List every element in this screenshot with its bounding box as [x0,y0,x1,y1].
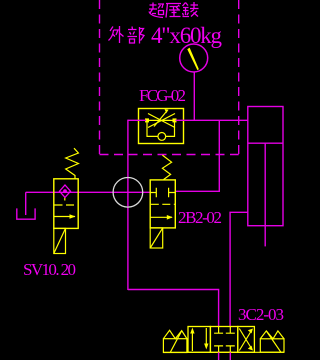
svg-text:SV10. 20: SV10. 20 [23,260,76,279]
外 [109,26,124,43]
wire 3C2 bottom port T2 [229,352,231,360]
wire 3C2 bottom port T1 [218,352,220,360]
svg-text:4"x60kg: 4"x60kg [151,23,223,48]
left square arrows [190,328,208,352]
port dot right [173,118,177,122]
poppet diamond [60,185,71,197]
wire FCG outlet to cylinder [176,119,249,121]
svg-text:3C2-03: 3C2-03 [238,305,284,324]
壓 [166,4,181,18]
body three squares [188,327,254,353]
dashed divider [151,203,175,205]
check valve bypass loop [147,122,175,136]
valve 2B2-02 [150,155,175,248]
spring [66,148,79,179]
pressure gauge [180,44,208,72]
adjustment arrow [154,112,166,127]
wire junction riser [127,120,129,290]
tank symbol [17,208,35,219]
部 [128,27,145,44]
wire tank riser [25,192,27,215]
svg-text:FCG-02: FCG-02 [139,86,186,105]
internal flow line [147,119,175,121]
drain box with diagonal [54,228,66,253]
body [54,179,78,229]
valve 3C2-03 directional valve [163,327,284,353]
left solenoid [163,330,187,352]
valve SV10.20 [54,148,79,253]
flow arrow [150,216,172,218]
錶 [183,2,199,17]
blocked port left [150,188,156,198]
component FCG-02 flow control valve [139,109,184,144]
restrictor arcs [148,114,175,128]
piston rod [264,143,266,246]
poppet seat stub [64,198,66,201]
blocked port right [169,188,176,198]
piston [248,142,283,144]
junction circle [113,178,143,208]
valve bottom rail [163,351,284,353]
right solenoid [260,331,284,352]
center square blocked ports [214,327,235,353]
label 超壓錶 (hand-drawn strokes) [149,2,199,18]
drain box with diagonal [150,228,163,248]
dashed enclosure box [100,0,239,155]
cylinder [248,107,283,247]
dashed divider [55,204,78,206]
spring [162,155,171,180]
wire FCG inlet (from junction riser) [128,119,146,121]
svg-text:2B2-02: 2B2-02 [178,208,222,227]
flow arrow [54,216,75,218]
wire gauge stem [193,72,195,120]
right square crossed arrows [239,329,253,351]
wire main horizontal (tank - SV - junction - 2B2) [26,191,151,193]
body [150,180,175,228]
port dot left [145,118,149,122]
wire pump line to 3C2 P port [128,290,219,328]
label 外部 (hand-drawn strokes) [109,26,145,44]
超 [149,3,164,18]
wire branch down to 2B2 right port [175,120,219,191]
wire cylinder rod side to 3C2 [230,212,248,327]
